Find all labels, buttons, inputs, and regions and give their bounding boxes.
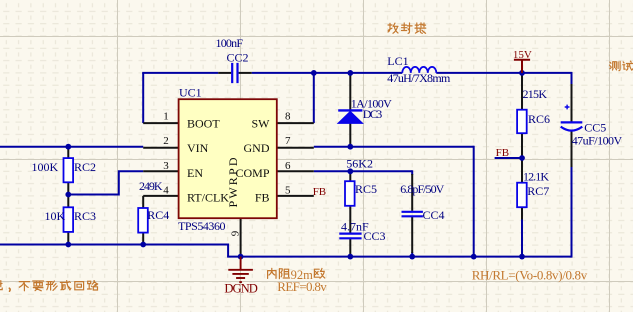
svg-text:RC7: RC7: [527, 184, 549, 198]
svg-text:EN: EN: [187, 166, 203, 180]
svg-text:RC2: RC2: [74, 160, 96, 174]
CC4 top pin: [411, 174, 413, 211]
RC7 bottom pin: [521, 207, 523, 219]
resistor RC7: [517, 183, 527, 208]
diode DC3: [338, 110, 363, 123]
CC2 right pin: [239, 72, 252, 74]
pin 7 GND stub: [277, 147, 314, 149]
svg-text:92m: 92m: [291, 268, 314, 282]
wire BOOT riser to CC2: [142, 73, 144, 123]
wire CC4 bottom connection: [411, 252, 413, 257]
inductor LC1 coil: [402, 67, 436, 73]
node CC4 rail junction: [409, 254, 415, 260]
RC5 top pin: [349, 171, 351, 181]
node RC7 rail junction: [519, 254, 525, 260]
svg-text:UC1: UC1: [179, 86, 202, 100]
wire top net: CC2 left segment: [142, 72, 218, 74]
svg-text:CC4: CC4: [423, 208, 445, 222]
svg-text:5: 5: [285, 184, 291, 196]
resistor RC6: [517, 110, 527, 134]
svg-text:CC2: CC2: [227, 51, 249, 65]
svg-text:FB: FB: [496, 147, 509, 159]
node RC3 bottom rail junction: [65, 242, 71, 248]
RC7 top pin: [521, 158, 523, 183]
pin 1 BOOT stub: [143, 122, 178, 124]
resistor RC3: [64, 207, 74, 232]
node EN divider junction: [65, 192, 71, 198]
node FB divider junction: [519, 155, 525, 161]
svg-text:10K: 10K: [45, 209, 66, 223]
label hui (回): [75, 282, 84, 290]
node diode top junction: [347, 70, 353, 76]
svg-text:100nF: 100nF: [216, 36, 244, 50]
CC4 bottom pin: [411, 217, 413, 253]
svg-text:COMP: COMP: [235, 166, 269, 180]
svg-text:CC3: CC3: [364, 229, 386, 243]
svg-text:100K: 100K: [32, 160, 59, 174]
wire GND net pin7 to drop: [314, 146, 474, 148]
op-amp U1 body: regulator UC1 TPS54360: [179, 99, 277, 218]
svg-text:RT/CLK: RT/CLK: [187, 190, 229, 204]
svg-text:RC4: RC4: [147, 208, 169, 222]
capacitor CC3 plates: [339, 234, 361, 239]
pin 3 EN stub: [143, 170, 178, 172]
power port 15V: [514, 60, 530, 73]
node RC4 bottom rail junction: [140, 242, 146, 248]
RC6 bottom pin: [521, 133, 523, 158]
svg-text:4: 4: [163, 184, 169, 196]
RC2 top pin: [67, 147, 69, 158]
pin 9 PWRPD stub: [240, 218, 242, 256]
CC2 left pin: [218, 72, 231, 74]
wire GND net vertical drop: [473, 146, 475, 257]
label ce (测) of 测试: [610, 61, 621, 70]
wire bottom ground rail right: [227, 256, 571, 258]
pin 4 RT/CLK stub: [143, 195, 178, 197]
svg-text:47uH/7X8mm: 47uH/7X8mm: [387, 71, 451, 85]
pin 5 FB stub: [277, 195, 314, 197]
svg-text:FB: FB: [255, 190, 270, 204]
wire CC4 top connection: [411, 170, 413, 175]
svg-text:GND: GND: [244, 141, 270, 155]
RC5 to CC3 pin: [349, 206, 351, 233]
svg-text:8: 8: [285, 111, 291, 123]
label zhuang (装) of 改封装: [415, 23, 426, 34]
svg-text:1: 1: [163, 111, 169, 123]
svg-text:215K: 215K: [523, 87, 548, 101]
pin 6 COMP stub: [277, 170, 314, 172]
wire FB stub to divider: [495, 157, 522, 159]
svg-text:2: 2: [163, 135, 169, 147]
label comma (，): [8, 288, 11, 291]
RC2-RC3 middle pins: [67, 182, 69, 207]
node SW/CC2 junction: [311, 70, 317, 76]
node CC3 rail junction: [347, 254, 353, 260]
wire VIN net left rail: [0, 146, 143, 148]
RC4 top pin from RT/CLK: [142, 196, 144, 208]
wire bottom-left ground rail: [0, 244, 228, 246]
node diode bottom junction: [347, 144, 353, 150]
CC5 bottom pin: [571, 131, 573, 168]
capacitor CC5 polarized plates: [561, 122, 583, 130]
label yao (要): [33, 281, 44, 291]
resistor RC5: [345, 181, 355, 206]
label shi (试) of 测试: [623, 61, 633, 70]
RC3 bottom pin: [67, 232, 69, 245]
label nei (内) of 内阻92m欧: [268, 268, 276, 278]
svg-text:RC6: RC6: [528, 112, 550, 126]
svg-text:RC5: RC5: [355, 182, 377, 196]
wire CC5 down to rail: [571, 166, 573, 258]
label di (地) of 地，不要形成回路 (partially cut at left edge): [0, 281, 2, 290]
node GND drop rail junction: [471, 254, 477, 260]
wire ground rail step down: [227, 244, 229, 257]
capacitor CC2 plates: [232, 63, 237, 83]
svg-text:FB: FB: [313, 186, 326, 198]
node RC5 top junction: [347, 168, 353, 174]
wire SW riser: [313, 73, 315, 123]
resistor RC2: [64, 158, 74, 182]
label xing (形): [46, 281, 57, 290]
svg-text:DGND: DGND: [224, 281, 258, 295]
svg-text:47uF/100V: 47uF/100V: [572, 133, 623, 147]
svg-text:12.1K: 12.1K: [523, 170, 549, 184]
capacitor CC5 plus mark: [565, 105, 570, 110]
svg-text:LC1: LC1: [387, 54, 408, 68]
svg-text:9: 9: [230, 230, 242, 236]
svg-text:DC3: DC3: [363, 107, 383, 121]
wire EN net jog to divider: [68, 171, 143, 194]
svg-text:TPS54360: TPS54360: [178, 219, 226, 233]
label cheng (成): [60, 281, 71, 290]
svg-text:3: 3: [163, 160, 169, 172]
svg-text:249K: 249K: [139, 179, 163, 193]
svg-text:RC3: RC3: [74, 209, 96, 223]
node pin9 ground junction: [238, 254, 244, 260]
svg-text:VIN: VIN: [187, 141, 209, 155]
pin 8 SW stub: [277, 122, 314, 124]
svg-text:15V: 15V: [513, 49, 532, 61]
diode DC3 top pin: [349, 73, 351, 110]
wire top net: CC2 right to inductor: [252, 72, 403, 74]
CC3 bottom pin: [349, 239, 351, 257]
resistor RC4: [138, 208, 148, 233]
label zu (阻) of 内阻92m欧: [279, 269, 289, 279]
svg-text:RH/RL=(Vo-0.8v)/0.8v: RH/RL=(Vo-0.8v)/0.8v: [472, 267, 588, 282]
node VIN/RC2 junction: [65, 144, 71, 150]
pin 2 VIN stub: [143, 147, 178, 149]
wire top net: inductor to CC5 corner: [436, 72, 571, 74]
label feng (封) of 改封装: [402, 23, 413, 33]
ground DGND symbol: [228, 257, 253, 283]
svg-text:56K2: 56K2: [346, 157, 373, 171]
diode DC3 bottom pin: [349, 123, 351, 146]
label bu (不): [19, 282, 29, 291]
label lu (路): [88, 281, 98, 290]
svg-text:SW: SW: [252, 117, 271, 131]
svg-text:BOOT: BOOT: [187, 117, 220, 131]
label ou (欧) of 内阻92m欧: [314, 268, 324, 278]
CC5 top pin: [571, 84, 573, 122]
svg-text:6.8pF/50V: 6.8pF/50V: [400, 182, 444, 196]
svg-text:6: 6: [285, 160, 291, 172]
RC6 top pin: [521, 73, 523, 110]
wire COMP net: [314, 170, 412, 172]
svg-text:7: 7: [285, 135, 291, 147]
wire CC5 riser from top net: [571, 72, 573, 85]
label gai (改) of 改封装: [388, 23, 398, 33]
capacitor CC4 plates: [402, 212, 423, 217]
node 15V junction: [519, 70, 525, 76]
wire RC7 bottom to rail: [521, 220, 523, 257]
RC4 bottom pin: [142, 233, 144, 245]
